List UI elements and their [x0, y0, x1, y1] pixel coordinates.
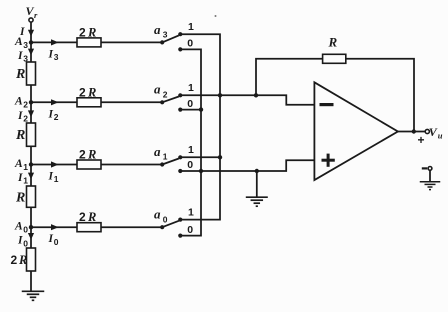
- svg-text:0: 0: [23, 225, 28, 235]
- svg-text:A: A: [14, 96, 23, 108]
- svg-text:V: V: [429, 125, 438, 139]
- svg-text:I: I: [48, 108, 54, 120]
- svg-text:2: 2: [79, 25, 86, 39]
- svg-text:I: I: [48, 48, 54, 60]
- svg-text:R: R: [87, 148, 96, 162]
- svg-text:0: 0: [187, 159, 193, 171]
- svg-text:0: 0: [54, 237, 59, 247]
- svg-text:1: 1: [23, 176, 28, 186]
- svg-text:2: 2: [79, 148, 86, 162]
- svg-text:2: 2: [23, 100, 28, 110]
- svg-text:1: 1: [188, 82, 194, 94]
- svg-text:1: 1: [188, 206, 194, 218]
- svg-text:R: R: [15, 128, 25, 143]
- svg-text:R: R: [87, 210, 96, 224]
- svg-text:R: R: [18, 253, 27, 267]
- svg-text:2: 2: [11, 253, 18, 267]
- svg-text:0: 0: [23, 238, 28, 248]
- svg-text:0: 0: [187, 38, 193, 50]
- svg-text:R: R: [15, 191, 25, 206]
- svg-text:a: a: [154, 144, 161, 159]
- svg-text:I: I: [17, 235, 23, 247]
- svg-text:u: u: [438, 131, 443, 141]
- svg-text:I: I: [48, 233, 54, 245]
- svg-text:A: A: [14, 221, 23, 233]
- svg-text:3: 3: [163, 30, 168, 40]
- svg-text:I: I: [17, 50, 23, 62]
- svg-text:I: I: [48, 171, 54, 183]
- svg-text:A: A: [14, 36, 23, 48]
- svg-text:R: R: [328, 35, 338, 50]
- svg-text:0: 0: [163, 214, 168, 224]
- svg-text:2: 2: [79, 210, 86, 224]
- svg-text:1: 1: [23, 162, 28, 172]
- svg-text:1: 1: [188, 144, 194, 156]
- svg-text:3: 3: [54, 52, 59, 62]
- svg-text:a: a: [154, 82, 161, 97]
- svg-text:R: R: [87, 85, 96, 99]
- svg-text:2: 2: [23, 114, 28, 124]
- svg-text:a: a: [154, 207, 161, 222]
- svg-text:+: +: [418, 133, 425, 147]
- svg-text:2: 2: [163, 89, 168, 99]
- svg-text:2: 2: [54, 112, 59, 122]
- svg-text:2: 2: [79, 85, 86, 99]
- svg-text:1: 1: [54, 174, 59, 184]
- svg-text:a: a: [154, 22, 161, 37]
- svg-text:0: 0: [187, 224, 193, 236]
- svg-text:0: 0: [187, 98, 193, 110]
- svg-text:R: R: [87, 25, 96, 39]
- svg-text:I: I: [17, 110, 23, 122]
- svg-text:3: 3: [23, 40, 28, 50]
- svg-text:1: 1: [163, 152, 168, 162]
- svg-text:R: R: [15, 67, 25, 82]
- svg-text:A: A: [14, 158, 23, 170]
- svg-text:1: 1: [188, 21, 194, 33]
- svg-text:I: I: [17, 172, 23, 184]
- svg-text:3: 3: [23, 54, 28, 64]
